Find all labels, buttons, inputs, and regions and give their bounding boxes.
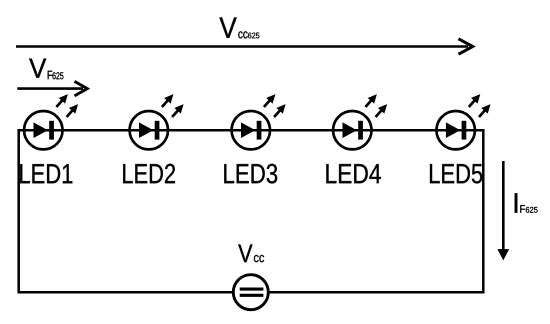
text LED3 bbox=[224, 164, 277, 184]
voltage source Vcc bbox=[233, 275, 268, 310]
text cc of Vcc bbox=[254, 255, 264, 262]
text V of Vcc bbox=[238, 244, 252, 262]
LED LED2 bbox=[130, 94, 184, 149]
wire right vertical bbox=[482, 129, 485, 293]
arrow VF625 small arrow bbox=[17, 81, 87, 96]
text 625 of IF625 bbox=[526, 207, 538, 213]
text LED5 bbox=[430, 164, 482, 183]
wire bottom horizontal bbox=[18, 291, 485, 294]
text 625 of Vcc625 bbox=[248, 33, 259, 39]
text I of IF625 bbox=[515, 193, 518, 212]
wire left vertical bbox=[17, 129, 20, 293]
text LED1 bbox=[20, 164, 72, 183]
text V of VF625 bbox=[29, 59, 46, 78]
LED LED3 bbox=[232, 94, 286, 149]
arrow Vcc625 top current-direction arrow bbox=[16, 39, 473, 54]
arrow IF625 current arrow right side bbox=[497, 161, 509, 260]
LED LED5 bbox=[437, 94, 491, 149]
text F of IF625 bbox=[520, 205, 525, 213]
wire main horizontal through LEDs bbox=[18, 129, 484, 132]
text F of VF625 bbox=[48, 71, 53, 79]
LED LED1 bbox=[24, 94, 78, 149]
text LED4 bbox=[326, 164, 380, 183]
text cc of Vcc625 bbox=[238, 31, 247, 38]
LED LED4 bbox=[333, 94, 387, 149]
text 625 of VF625 bbox=[53, 72, 64, 79]
text LED2 bbox=[123, 164, 175, 183]
text V of Vcc625 bbox=[219, 17, 236, 37]
